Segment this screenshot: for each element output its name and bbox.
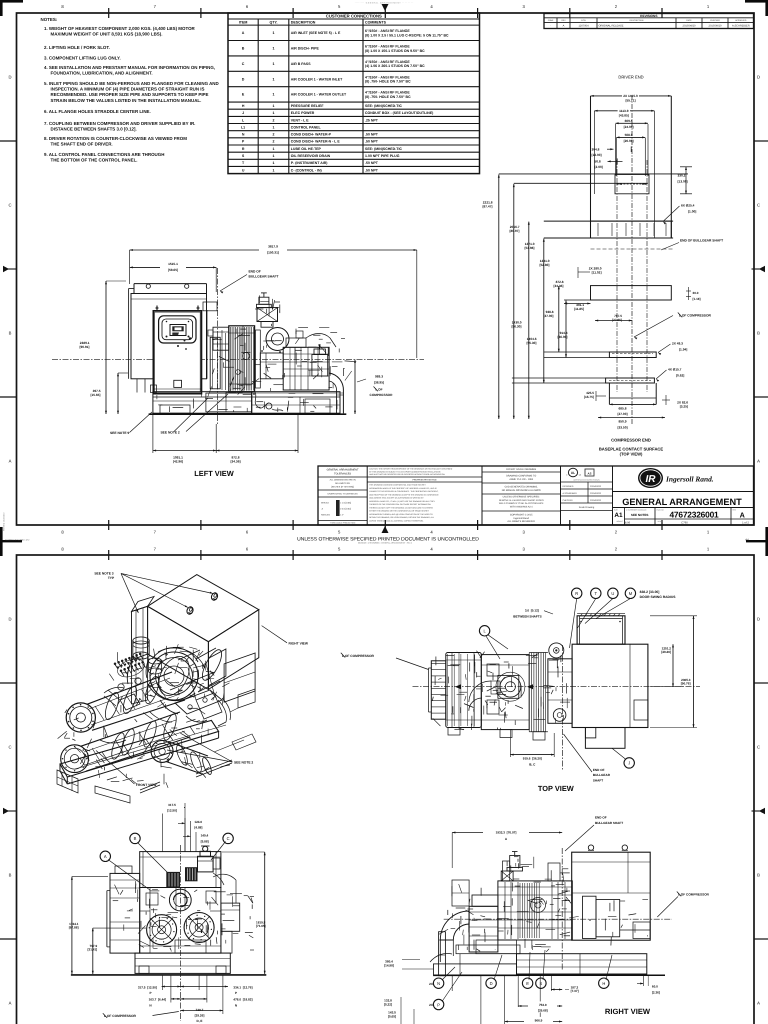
svg-text:685.8: 685.8 [619,406,627,410]
svg-text:[43.85]: [43.85] [619,114,629,118]
svg-text:124.0: 124.0 [194,820,202,824]
svg-text:(4) 1.06 X 260.1 STUDS ON 7.50: (4) 1.06 X 260.1 STUDS ON 7.50" BC [365,64,425,68]
svg-text:REMOVE ALL BURRS AND SHARP EDG: REMOVE ALL BURRS AND SHARP EDGES [499,499,544,502]
svg-text:OIL RESERVOIR DRAIN: OIL RESERVOIR DRAIN [291,154,331,158]
svg-text:IR: IR [646,474,657,485]
svg-text:.50 NPT: .50 NPT [365,133,379,137]
svg-text:[33.50]: [33.50] [617,425,627,429]
svg-text:A.SCHREIBER: A.SCHREIBER [563,492,578,495]
svg-text:A1: A1 [614,512,623,519]
svg-text:A: A [104,854,107,859]
svg-text:TYP: TYP [108,576,115,580]
svg-text:CERTIFICATION MARKS SHOWN: CERTIFICATION MARKS SHOWN [573,478,600,481]
svg-text:1207954: 1207954 [578,25,589,28]
svg-text:Ingersoll Rand.: Ingersoll Rand. [665,475,714,484]
svg-text:609.6: 609.6 [625,119,633,123]
svg-text:RETAIN THE DRAWING, OR UPON DE: RETAIN THE DRAWING, OR UPON DEMAND, RETU… [369,516,434,519]
svg-text:748.7: 748.7 [196,1008,204,1012]
svg-text:[1.94]: [1.94] [679,347,687,351]
svg-text:[71.65]: [71.65] [256,924,266,928]
svg-text:AND RECEPTION OF THE DRAWING A: AND RECEPTION OF THE DRAWING ACCEPTS THE… [369,493,439,496]
svg-text:C: C [8,745,11,750]
svg-text:[55.30]: [55.30] [526,341,536,345]
svg-text:[5.22]: [5.22] [384,1002,392,1006]
svg-text:A: A [757,459,760,464]
svg-text:ORIGINAL RELEASE: ORIGINAL RELEASE [599,25,624,28]
svg-text:SEE NOTE 2: SEE NOTE 2 [161,431,180,435]
svg-text:[0.62]: [0.62] [676,373,684,377]
svg-text:STRAIN BELOW THE VALUES LISTED: STRAIN BELOW THE VALUES LISTED IN THE IN… [51,98,202,103]
svg-text:1: 1 [273,125,275,129]
svg-text:ECN: ECN [581,19,586,22]
svg-text:-: - [550,25,551,28]
svg-text:WELD SYMBOLS TO BE IN ACCORDAN: WELD SYMBOLS TO BE IN ACCORDANCE [499,502,544,505]
svg-text:AIR DISCH- PIPE: AIR DISCH- PIPE [291,47,320,51]
svg-text:GENERAL ARRANGEMENT: GENERAL ARRANGEMENT [327,469,359,472]
svg-text:L1: L1 [241,125,245,129]
svg-text:7. COUPLING BETWEEN COMPRESSOR: 7. COUPLING BETWEEN COMPRESSOR AND DRIVE… [44,121,195,126]
svg-text:UNLESS OTHERWISE SPECIFIED PRI: UNLESS OTHERWISE SPECIFIED PRINTED DOCUM… [297,536,479,542]
svg-text:B, C: B, C [529,762,536,766]
svg-text:20150420 - 47672326001 - GENER: 20150420 - 47672326001 - GENERAL ARRANGE… [358,542,413,545]
svg-text:CAD GENERATED DRAWING,: CAD GENERATED DRAWING, [505,486,539,489]
svg-text:(8) 1.00 X 150.1 STUDS ON 9.50: (8) 1.00 X 150.1 STUDS ON 9.50" BC [365,49,425,53]
svg-text:[90.76]: [90.76] [681,682,691,686]
svg-text:[49.26]: [49.26] [661,650,671,654]
svg-text:LOANED TO THE RECEIVER IN CONF: LOANED TO THE RECEIVER IN CONFIDENCE. TH… [369,490,439,493]
svg-text:317.5 [12.50]: 317.5 [12.50] [138,985,157,989]
svg-text:BULLGEAR SHAFT: BULLGEAR SHAFT [249,275,279,279]
svg-text:8.06: 8.06 [625,521,631,524]
svg-text:AIR COOLER 1 - WATER OUTLET: AIR COOLER 1 - WATER OUTLET [291,93,347,97]
svg-text:334.1 [12.76]: 334.1 [12.76] [233,985,252,989]
svg-text:± 2°: ± 2° [340,514,344,517]
svg-text:DISTANCE BETWEEN SHAFTS 3.0 [0: DISTANCE BETWEEN SHAFTS 3.0 [0.12]. [51,127,137,132]
svg-text:H: H [602,981,605,986]
svg-text:WHOLE: WHOLE [321,502,330,505]
svg-text:J: J [628,761,630,766]
svg-text:A: A [9,1001,12,1006]
svg-text:E: E [526,981,529,986]
svg-text:50.8: 50.8 [595,159,601,163]
svg-text:CUSTOMER CONNECTIONS: CUSTOMER CONNECTIONS [326,14,382,19]
svg-text:N: N [437,981,440,986]
svg-text:N: N [149,1003,151,1007]
svg-text:163.7 [6.44]: 163.7 [6.44] [149,998,166,1002]
svg-text:DRIVER END: DRIVER END [618,75,643,80]
svg-text:FRONT VIEW: FRONT VIEW [136,783,157,787]
svg-text:TOLERANCES: TOLERANCES [334,472,351,475]
svg-text:C: C [757,745,760,750]
svg-text:U: U [611,591,614,596]
svg-text:1: 1 [273,62,275,66]
svg-text:[3.25]: [3.25] [680,404,688,408]
svg-text:THE SHAFT END OF DRIVER.: THE SHAFT END OF DRIVER. [51,142,113,147]
svg-text:3817.9: 3817.9 [268,245,278,249]
svg-text:A4: A4 [745,537,749,541]
svg-text:INGERSOLL-RAND CO., IT WILL (1: INGERSOLL-RAND CO., IT WILL (1) NOT USE … [369,500,435,503]
svg-text:CONDUIT BOX - (SEE LAYOUT/OUTL: CONDUIT BOX - (SEE LAYOUT/OUTLINE) [365,111,433,115]
svg-text:AIR INLET (SEE NOTE 5) - L E: AIR INLET (SEE NOTE 5) - L E [291,31,341,35]
svg-text:[87.47]: [87.47] [482,204,492,208]
svg-text:[59.65]: [59.65] [168,268,178,272]
svg-text:2: 2 [273,140,275,144]
svg-text:R: R [575,591,578,596]
svg-text:B: B [9,331,12,336]
svg-text:[150.31]: [150.31] [267,250,279,254]
svg-text:[27.00]: [27.00] [617,412,627,416]
svg-text:CHECKED: CHECKED [710,19,720,22]
svg-text:D: D [757,75,760,80]
svg-text:ZONE: ZONE [548,19,554,22]
svg-text:AIR B PASS: AIR B PASS [291,62,311,66]
svg-text:SEE NOTES: SEE NOTES [631,513,649,517]
svg-text:[31.41]: [31.41] [87,948,97,952]
svg-text:FOUNDATION, LUBRICATION, AND A: FOUNDATION, LUBRICATION, AND ALIGNMENT. [51,71,153,76]
svg-text:ANGLES: ANGLES [321,514,330,517]
svg-text:BULLGEAR SHAFT: BULLGEAR SHAFT [595,821,623,825]
svg-text:[80.97]: [80.97] [509,229,519,233]
svg-text:2015/09/20: 2015/09/20 [709,25,723,28]
svg-text:[53.98]: [53.98] [524,246,534,250]
svg-text:R: R [242,147,245,151]
svg-text:D, E: D, E [197,1019,203,1023]
svg-text:DESCRIPTION: DESCRIPTION [291,20,316,24]
svg-text:REVISIONS: REVISIONS [640,14,657,18]
svg-text:[34.36]: [34.36] [553,284,563,288]
svg-text:INFORMATION WHICH IS THE PROPE: INFORMATION WHICH IS THE PROPERTY OF ING… [369,487,437,490]
svg-text:GENERAL ARRANGEMENT: GENERAL ARRANGEMENT [622,497,742,507]
svg-text:M: M [629,591,633,596]
svg-text:5. INLET PIPING SHOULD BE NON-: 5. INLET PIPING SHOULD BE NON-FERROUS AN… [44,81,220,86]
svg-text:L OF COMPRESSOR: L OF COMPRESSOR [104,1014,137,1018]
svg-text:[1.18]: [1.18] [693,297,701,301]
svg-text:DESCRIPTION: DESCRIPTION [630,19,644,22]
svg-text:END OF: END OF [593,768,605,772]
svg-text:2015/04/20: 2015/04/20 [590,485,602,488]
svg-text:C: C [757,203,760,208]
svg-text:[5.88]: [5.88] [201,839,209,843]
svg-text:[55.71]: [55.71] [625,99,635,103]
svg-text:[52.80]: [52.80] [539,263,549,267]
svg-text:1113.9: 1113.9 [619,109,629,113]
svg-text:COMPRESSOR: COMPRESSOR [370,393,394,397]
svg-text:A.SCHREIBER 2015/04/20: A.SCHREIBER 2015/04/20 [626,508,646,511]
svg-text:[5.65]: [5.65] [388,1014,396,1018]
svg-text:AIR COOLER 1 - WATER INLET: AIR COOLER 1 - WATER INLET [291,77,343,81]
svg-text:SHAFT: SHAFT [593,778,603,782]
svg-text:ALL DIMENSIONS ARE IN: ALL DIMENSIONS ARE IN [330,479,356,482]
svg-text:END OF: END OF [249,270,261,274]
svg-text:1. WEIGHT OF HEAVIEST COMPONEN: 1. WEIGHT OF HEAVIEST COMPONENT 2,000 KG… [44,26,196,31]
svg-text:A: A [563,25,565,28]
svg-text:QTY.: QTY. [270,20,278,24]
svg-text:DOOR SWING RADIUS: DOOR SWING RADIUS [640,595,677,599]
svg-text:ASME Y14.100 - 1994: ASME Y14.100 - 1994 [509,478,533,481]
svg-text:A: A [9,459,12,464]
svg-text:INFORMATION THEREIN; AND (4) U: INFORMATION THEREIN; AND (4) UPON COMPLE… [369,513,433,516]
svg-text:A: A [757,1001,760,1006]
svg-text:.50 NPT: .50 NPT [365,168,379,172]
svg-text:INSPECTION. A MINIMUM OF (4) P: INSPECTION. A MINIMUM OF (4) PIPE DIAMET… [51,87,205,92]
svg-text:2X 1415.0: 2X 1415.0 [623,94,638,98]
svg-text:UNLESS OTHERWISE SPECIFIED:: UNLESS OTHERWISE SPECIFIED: [503,496,540,499]
svg-text:[42.96]: [42.96] [173,459,183,463]
svg-text:1: 1 [273,147,275,151]
svg-text:SEE NOTE 2: SEE NOTE 2 [234,760,253,764]
svg-text:1: 1 [273,77,275,81]
svg-text:9. ALL CONTROL PANEL CONNECTIO: 9. ALL CONTROL PANEL CONNECTIONS ARE THR… [44,152,164,157]
svg-text:DESIGNED: DESIGNED [563,485,574,488]
svg-text:SEE NOTE 9: SEE NOTE 9 [110,431,129,435]
svg-text:AS: AS [588,471,592,475]
svg-text:6. ALL FLANGE HOLES STRADDLE C: 6. ALL FLANGE HOLES STRADDLE CENTER LINE… [44,109,151,114]
svg-text:D: D [8,75,11,80]
svg-text:753.9: 753.9 [539,1003,547,1007]
svg-text:THIS DRAWING CONTAINS CONFIDEN: THIS DRAWING CONTAINS CONFIDENTIAL AND T… [369,484,426,487]
svg-text:C760: C760 [681,521,688,524]
svg-text:ALL RIGHTS RESERVED: ALL RIGHTS RESERVED [507,520,535,523]
svg-text:D: D [490,981,493,986]
svg-text:Scale Drawing: Scale Drawing [579,506,595,509]
svg-text:RIGHT VIEW: RIGHT VIEW [605,1007,651,1016]
svg-text:[90.91]: [90.91] [79,345,89,349]
svg-text:A: A [740,511,745,520]
svg-text:EITHER THE DRAWING OR THE CONF: EITHER THE DRAWING OR THE CONFIDENTIAL O… [369,510,430,513]
svg-text:[15.65]: [15.65] [90,393,100,397]
svg-text:[16.75]: [16.75] [584,395,594,399]
svg-text:149.4: 149.4 [201,834,209,838]
svg-text:966.9: 966.9 [535,1018,543,1022]
svg-text:[37.00]: [37.00] [543,314,553,318]
svg-text:L OF COMPRESSOR: L OF COMPRESSOR [678,892,710,896]
svg-text:[38.95]: [38.95] [374,380,384,384]
svg-text:Scan0001.tif (scaled) 1 of 2: Scan0001.tif (scaled) 1 of 2 [5,539,30,542]
svg-text:2015/04/20: 2015/04/20 [590,492,602,495]
svg-text:989.3: 989.3 [375,375,383,379]
svg-text:LUBE OIL HE-TEP: LUBE OIL HE-TEP [291,147,322,151]
svg-text:317.5: 317.5 [168,803,176,807]
svg-text:47672326001: 47672326001 [669,509,719,519]
svg-text:(8) .750- HOLE ON 7.50" BC: (8) .750- HOLE ON 7.50" BC [365,80,411,84]
svg-text:N: N [242,133,245,137]
svg-text:ITEM: ITEM [239,20,248,24]
svg-text:478.0 [18.82]: 478.0 [18.82] [233,998,252,1002]
svg-text:[36.00]: [36.00] [557,335,567,339]
svg-text:30.0: 30.0 [693,291,699,295]
svg-text:[2.00]: [2.00] [595,165,603,169]
svg-text:TOP VIEW: TOP VIEW [538,784,574,793]
svg-text:SEE: (MIN)SCHED-TIC: SEE: (MIN)SCHED-TIC [365,147,402,151]
svg-text:[7.37]: [7.37] [571,989,579,993]
svg-text:[13.00]: [13.00] [678,179,688,183]
svg-text:± 1.5 [0.06]: ± 1.5 [0.06] [340,502,351,505]
svg-text:COND DISCH- WATER-P: COND DISCH- WATER-P [291,133,332,137]
svg-text:B: B [9,873,12,878]
svg-text:REV: REV [561,19,566,22]
svg-text:P- (INSTRUMENT AIR): P- (INSTRUMENT AIR) [291,161,328,165]
svg-text:ELEC POWER: ELEC POWER [291,111,315,115]
svg-text:1: 1 [273,47,275,51]
svg-text:1515.1: 1515.1 [168,262,178,266]
svg-text:CONTROL PANEL: CONTROL PANEL [291,125,322,129]
svg-text:- - - - - - - - G E N E R A: - - - - - - - - G E N E R A L A R R A N … [355,1,414,4]
svg-text:VENT - L E: VENT - L E [291,118,309,122]
svg-text:2015/04/20: 2015/04/20 [590,499,602,502]
svg-text:END OF BULLGEAR SHAFT: END OF BULLGEAR SHAFT [680,239,723,243]
svg-text:COMPRESSOR END: COMPRESSOR END [611,438,651,443]
svg-text:4X Ø15.7: 4X Ø15.7 [668,368,682,372]
svg-text:1: 1 [273,161,275,165]
svg-text:919.6 [36.20]: 919.6 [36.20] [523,757,542,761]
svg-text:UNSPECIFIED TOLERANCES: UNSPECIFIED TOLERANCES [328,493,359,496]
svg-text:8. DRIVER ROTATION IS COUNTER-: 8. DRIVER ROTATION IS COUNTER-CLOCKWISE … [44,136,187,141]
svg-text:(8) 1.00 X 2.5 / 55.1 LUG C-RS: (8) 1.00 X 2.5 / 55.1 LUG C-RSCPE: 5 ON … [365,33,449,37]
svg-text:1932.3 [76.07]: 1932.3 [76.07] [496,831,517,835]
svg-text:MAXIMUM WEIGHT OF UNIT 8,591 K: MAXIMUM WEIGHT OF UNIT 8,591 KGS (18,900… [51,32,163,37]
svg-text:DWG NO: DWG NO [657,508,665,511]
svg-text:B: B [134,836,137,841]
svg-text:CHECKED: CHECKED [563,499,574,502]
svg-text:850.9: 850.9 [619,420,627,424]
svg-text:APPROVED: APPROVED [735,19,747,22]
svg-text:B: B [757,331,760,336]
svg-text:COPIES THEREOF, AND ALL MATERI: COPIES THEREOF, AND ALL MATERIAL COPIED … [369,519,424,522]
svg-text:NO MANUAL REVISIONS ALLOWED: NO MANUAL REVISIONS ALLOWED [502,489,541,492]
svg-text:AND AGREES THAT, EXCEPT AS AUT: AND AGREES THAT, EXCEPT AS AUTHORIZED IN… [369,497,424,500]
svg-text:330.2: 330.2 [678,174,686,178]
svg-text:THEREOF OR THE CONFIDENTIAL OR: THEREOF OR THE CONFIDENTIAL OR TRADE SEC… [369,503,431,506]
svg-text:P: P [437,1002,440,1007]
svg-text:PROPRIETARY NOTICE: PROPRIETARY NOTICE [412,479,437,482]
svg-text:[56.30]: [56.30] [511,324,521,328]
svg-text:3. COMPONENT LIFTING LUG ONLY.: 3. COMPONENT LIFTING LUG ONLY. [44,55,121,60]
svg-text:.50 NPT: .50 NPT [365,161,379,165]
svg-text:[67.88]: [67.88] [69,926,79,930]
svg-text:P: P [235,991,237,995]
svg-text:6X Ø25.4: 6X Ø25.4 [681,204,695,208]
svg-text:2X 49.3: 2X 49.3 [672,342,683,346]
svg-text:1: 1 [273,31,275,35]
svg-text:[27.85]: [27.85] [612,318,622,322]
svg-text:3.0 [0.12]: 3.0 [0.12] [525,609,539,613]
svg-text:838.2 [33.00]: 838.2 [33.00] [640,590,660,594]
svg-text:1: 1 [273,111,275,115]
svg-text:UL: UL [571,471,575,475]
svg-text:.50 NPT: .50 NPT [365,140,379,144]
svg-text:[34.36]: [34.36] [230,459,240,463]
svg-text:THEREIN; (2) NOT COPY THE DRAW: THEREIN; (2) NOT COPY THE DRAWING; (3) N… [369,506,433,509]
svg-text:1.00 NPT PIPE PLUG: 1.00 NPT PIPE PLUG [365,154,400,158]
svg-text:A: A [242,31,245,35]
svg-text:[INCHES (IF SHOWN)]: [INCHES (IF SHOWN)] [331,485,354,488]
svg-text:D: D [8,617,11,622]
svg-text:2015/04/20: 2015/04/20 [683,25,697,28]
svg-text:1: 1 [273,93,275,97]
svg-text:[12.00]: [12.00] [592,153,602,157]
svg-text:RIGHT VIEW: RIGHT VIEW [289,641,309,645]
svg-text:[4.88]: [4.88] [194,826,202,830]
svg-text:AND MUST NOT BE EXPORTED OR RE: AND MUST NOT BE EXPORTED OR RE-EXPORTED … [369,473,445,476]
svg-text:J: J [242,111,244,115]
svg-text:PRESSURE RELIEF: PRESSURE RELIEF [291,104,325,108]
svg-text:A.SCHREIBER: A.SCHREIBER [732,25,750,28]
svg-text:[1.00]: [1.00] [688,209,696,213]
svg-text:SEE NOTE 3: SEE NOTE 3 [94,572,113,576]
svg-text:DATE: DATE [686,19,692,22]
svg-text:L OF COMPRESSOR: L OF COMPRESSOR [342,654,375,658]
svg-text:[11.85]: [11.85] [574,307,584,311]
svg-text:60.0: 60.0 [652,985,658,989]
svg-text:2: 2 [273,133,275,137]
svg-text:THE BOTTOM OF THE CONTROL PANE: THE BOTTOM OF THE CONTROL PANEL. [51,157,138,162]
svg-text:CAUTION: THE EXPORT/TRANSSHIPM: CAUTION: THE EXPORT/TRANSSHIPMENT OF THE… [369,468,453,471]
svg-text:DO NOT SCALE DRAWING: DO NOT SCALE DRAWING [506,468,536,471]
svg-text:[29.68]: [29.68] [538,1009,548,1013]
svg-text:[14.98]: [14.98] [384,963,394,967]
svg-text:RECOMMENDED. USE PROPER SIZE P: RECOMMENDED. USE PROPER SIZE PIPE AND SU… [51,92,209,97]
svg-text:1 of 2: 1 of 2 [742,521,749,524]
svg-text:D: D [242,77,245,81]
svg-text:BETWEEN SHAFTS: BETWEEN SHAFTS [513,615,541,619]
svg-text:2: 2 [273,118,275,122]
svg-text:NOTES:: NOTES: [41,17,58,22]
svg-text:(TOP VIEW): (TOP VIEW) [620,452,643,457]
svg-text:COND DISCH- WATER-N - L E: COND DISCH- WATER-N - L E [291,140,341,144]
svg-text:[12.50]: [12.50] [167,809,177,813]
svg-text:BY THIS DRAWING IS SUBJECT TO: BY THIS DRAWING IS SUBJECT TO US EXPORT … [369,470,441,473]
svg-text:4. SEE INSTALLATION AND PRESTA: 4. SEE INSTALLATION AND PRESTART MANUAL … [44,65,215,70]
svg-text:WITH ANSI/AWS A2.4: WITH ANSI/AWS A2.4 [510,505,533,508]
svg-text:1: 1 [273,154,275,158]
svg-text:COMMENTS: COMMENTS [365,20,387,24]
svg-text:304.8: 304.8 [592,147,600,151]
svg-text:THIRD ANGLE PROJECTION: THIRD ANGLE PROJECTION [330,522,356,525]
svg-text:(8) .750- HOLE ON 7.50" BC: (8) .750- HOLE ON 7.50" BC [365,95,411,99]
svg-text:508.0: 508.0 [625,133,633,137]
svg-text:2. LIFTING HOLE / FORK SLOT.: 2. LIFTING HOLE / FORK SLOT. [44,45,110,50]
svg-text:D: D [757,617,760,622]
svg-text:U: U [242,168,245,172]
svg-text:MILLIMETERS: MILLIMETERS [335,482,350,485]
svg-text:C: C [242,62,245,66]
svg-text:H: H [242,104,245,108]
svg-text:[11.02]: [11.02] [592,270,602,274]
svg-text:1: 1 [273,168,275,172]
svg-text:LEFT VIEW: LEFT VIEW [194,469,233,478]
svg-text:END OF: END OF [595,816,607,820]
svg-text:C- (CONTROL - IN): C- (CONTROL - IN) [291,168,322,172]
svg-text:.25 NPT: .25 NPT [365,118,379,122]
svg-text:L OF COMPRESSOR: L OF COMPRESSOR [679,314,712,318]
svg-text:BULLGEAR: BULLGEAR [593,773,611,777]
svg-text:C: C [8,203,11,208]
svg-text:± 0.5 [0.02]: ± 0.5 [0.02] [340,508,351,511]
svg-text:SEE: (MIN)SCHED-TIC: SEE: (MIN)SCHED-TIC [365,104,402,108]
svg-text:[2.36]: [2.36] [652,990,660,994]
svg-text:C: C [227,836,230,841]
svg-text:1: 1 [273,104,275,108]
svg-text:[29.26]: [29.26] [195,1014,205,1018]
svg-text:PRINTED 2015/04/20: PRINTED 2015/04/20 [3,513,6,531]
svg-text:N: N [235,1003,237,1007]
svg-text:P: P [149,991,151,995]
svg-text:B: B [242,47,245,51]
svg-text:B: B [757,873,760,878]
